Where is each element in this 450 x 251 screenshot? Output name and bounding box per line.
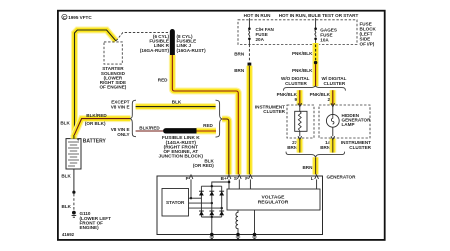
svg-text:OF I/P): OF I/P) xyxy=(360,41,375,46)
svg-text:JUNCTION BLOCK): JUNCTION BLOCK) xyxy=(159,154,204,160)
svg-text:9: 9 xyxy=(294,97,297,102)
svg-text:BRN: BRN xyxy=(302,165,313,170)
wire stator phase 3 xyxy=(189,207,222,209)
svg-text:REGULATOR: REGULATOR xyxy=(258,200,289,206)
tick label to box left xyxy=(248,18,250,20)
wire RED from link R to generator S xyxy=(172,55,238,175)
svg-text:V8 VIN E: V8 VIN E xyxy=(111,104,130,109)
svg-text:RED: RED xyxy=(203,123,213,128)
resistor (gauge) xyxy=(295,111,307,131)
svg-text:S: S xyxy=(234,176,237,181)
pin 14 arrow xyxy=(331,136,335,140)
node splice on PNK/BLK wire xyxy=(314,61,317,64)
wire battery diagonal to split brace (BLK/RED) xyxy=(74,119,130,136)
diode D3 xyxy=(219,191,224,195)
wire BLK (OR RED) to generator B+ xyxy=(222,119,229,175)
svg-text:PNK/BLK: PNK/BLK xyxy=(292,68,313,73)
pin 9 arrow xyxy=(298,103,302,107)
svg-text:P: P xyxy=(186,176,189,181)
svg-text:20A: 20A xyxy=(256,37,265,42)
wire B+ to rectifier xyxy=(212,182,229,186)
wire RED from link K to join brace xyxy=(197,128,217,135)
svg-text:CLUSTER: CLUSTER xyxy=(324,81,346,86)
svg-text:(16GA-RUST): (16GA-RUST) xyxy=(140,48,170,53)
wire dashed solenoid to fusible link R xyxy=(116,33,169,41)
node rectifier bottom junction xyxy=(211,216,213,218)
wire battery negative BLK xyxy=(73,169,75,192)
wire rectifier to case ground xyxy=(211,217,213,235)
border frame xyxy=(58,11,385,240)
svg-text:1995 VFTC: 1995 VFTC xyxy=(68,15,92,20)
svg-text:HOT IN RUN, BULB TEST OR START: HOT IN RUN, BULB TEST OR START xyxy=(279,13,359,18)
wire L internal xyxy=(316,179,318,189)
terminal F xyxy=(249,175,253,179)
svg-text:F: F xyxy=(245,176,248,181)
svg-text:PNK/BLK: PNK/BLK xyxy=(277,92,298,97)
svg-text:PNK/BLK: PNK/BLK xyxy=(310,92,331,97)
copyright mark xyxy=(62,14,93,20)
instrument cluster resistor box xyxy=(287,105,314,138)
wire into lamp xyxy=(332,107,334,115)
fuse C/H FAN 20A xyxy=(248,20,251,45)
svg-text:BLK: BLK xyxy=(61,174,71,179)
svg-text:(16GA-RUST): (16GA-RUST) xyxy=(177,48,207,53)
svg-text:C: C xyxy=(63,15,66,20)
node phase 2 junction xyxy=(211,202,213,204)
svg-text:BRN: BRN xyxy=(234,52,245,57)
label fusible link J note xyxy=(177,34,207,53)
wire BRN below resistor xyxy=(296,139,303,153)
wire stator phase 1 xyxy=(189,197,202,199)
ground regulator xyxy=(252,233,256,239)
svg-text:10A: 10A xyxy=(320,38,329,43)
diode D1 xyxy=(199,191,204,195)
svg-text:BLK/RED: BLK/RED xyxy=(86,113,107,118)
wire PNK/BLK to cluster resistor xyxy=(296,90,303,105)
label G110 note xyxy=(80,211,112,230)
ground G110 xyxy=(72,211,77,217)
wire into resistor xyxy=(299,107,301,112)
label FUSIBLE LINK K note xyxy=(159,135,204,159)
stator box xyxy=(162,189,189,217)
svg-text:RED: RED xyxy=(158,78,168,83)
wire BRN to generator F xyxy=(246,66,253,175)
diode D2 xyxy=(209,191,214,195)
svg-text:BLK: BLK xyxy=(60,121,70,126)
node P phase junction xyxy=(190,197,192,199)
instrument cluster lamp box xyxy=(319,105,370,138)
diode D5 xyxy=(209,211,214,215)
label FUSE BLOCK note xyxy=(360,21,377,46)
wire out of lamp xyxy=(332,127,334,136)
svg-text:B+: B+ xyxy=(221,176,227,181)
wire BRN to generator L xyxy=(312,157,319,174)
svg-text:BLK/RED: BLK/RED xyxy=(139,125,160,130)
wire regulator to case ground xyxy=(254,210,256,235)
wire BRN dashed below C/H FAN fuse xyxy=(248,45,250,63)
terminal S xyxy=(237,175,241,179)
wire stator phase 2 xyxy=(189,202,212,204)
svg-text:LAMP: LAMP xyxy=(342,122,355,127)
node B+ junction xyxy=(228,181,231,184)
ground rectifier xyxy=(210,233,214,239)
node battery junction xyxy=(72,134,75,137)
svg-text:STATOR: STATOR xyxy=(166,200,185,205)
label STARTER SOLENOID note xyxy=(99,66,126,89)
diode D6 xyxy=(219,211,224,215)
svg-text:HOT IN RUN: HOT IN RUN xyxy=(244,13,271,18)
svg-text:41692: 41692 xyxy=(62,232,75,237)
svg-text:VOLTAGE: VOLTAGE xyxy=(262,195,286,201)
pin 2 arrow xyxy=(331,103,335,107)
fusible link R xyxy=(170,32,175,56)
svg-text:GENERATOR: GENERATOR xyxy=(327,175,357,180)
hidden generator lamp xyxy=(326,114,339,127)
brace join BRN wires xyxy=(286,152,345,158)
svg-text:BRN: BRN xyxy=(287,145,298,150)
wire battery positive stub xyxy=(70,135,77,139)
brace join right xyxy=(216,100,223,137)
svg-text:BLK: BLK xyxy=(62,204,72,209)
wire top branch BLK (except V8 VIN E) xyxy=(136,103,216,110)
svg-text:L: L xyxy=(311,176,314,181)
svg-text:(OR BLK): (OR BLK) xyxy=(85,121,106,126)
svg-text:ENGINE): ENGINE) xyxy=(80,225,100,230)
wire out of resistor xyxy=(299,131,301,136)
svg-text:CLUSTER: CLUSTER xyxy=(349,145,371,150)
wire PNK/BLK below GAGES fuse xyxy=(312,43,319,86)
wire PNK/BLK to cluster lamp xyxy=(329,90,336,105)
label fusible link R note xyxy=(140,34,170,53)
svg-text:BATTERY: BATTERY xyxy=(83,139,107,145)
battery xyxy=(66,139,81,169)
terminal B+ xyxy=(227,175,231,179)
svg-text:BRN: BRN xyxy=(320,145,331,150)
wire battery to top-left corner run (BLK) xyxy=(75,30,116,136)
brace split to clusters xyxy=(284,86,346,91)
diode rectifier bridge rails xyxy=(201,186,221,217)
tick label to box right xyxy=(315,18,317,20)
label HIDDEN GENERATOR LAMP xyxy=(342,113,372,127)
svg-text:PNK/BLK: PNK/BLK xyxy=(292,51,313,56)
node splice on BRN wire xyxy=(248,63,252,66)
node rectifier top junction xyxy=(211,185,213,187)
label GAGES FUSE 10A xyxy=(320,28,337,43)
terminal L xyxy=(315,175,319,179)
fuse GAGES 10A xyxy=(314,20,317,45)
ground field coil xyxy=(236,233,240,239)
voltage regulator box xyxy=(227,189,320,210)
field coil xyxy=(236,210,238,235)
diode D4 xyxy=(199,211,204,215)
wire bottom branch BLK/RED to fusible link K xyxy=(136,130,165,132)
svg-text:CLUSTER: CLUSTER xyxy=(285,81,307,86)
label C/H FAN FUSE 20A xyxy=(256,27,275,42)
svg-text:2: 2 xyxy=(327,97,330,102)
pin 27 arrow xyxy=(298,136,302,140)
terminal P xyxy=(189,175,193,179)
wire dashed to ground G110 xyxy=(73,194,75,211)
fusible link K xyxy=(166,128,196,133)
starter solenoid box xyxy=(104,42,122,64)
brace split left xyxy=(130,100,136,137)
wire F internal xyxy=(249,179,251,189)
svg-text:CLUSTER: CLUSTER xyxy=(263,109,285,114)
svg-text:ONLY: ONLY xyxy=(117,132,129,137)
wire B+ internal xyxy=(228,179,230,189)
node phase 3 junction xyxy=(221,207,223,209)
svg-text:BLK: BLK xyxy=(172,99,182,104)
generator box xyxy=(157,176,323,235)
svg-text:+: + xyxy=(77,139,80,144)
svg-text:OF ENGINE): OF ENGINE) xyxy=(99,85,126,90)
svg-text:BRN: BRN xyxy=(234,68,245,73)
node battery negative junction xyxy=(72,191,75,194)
wire S internal xyxy=(238,179,240,189)
svg-text:(OR RED): (OR RED) xyxy=(193,163,214,168)
wire BRN below lamp xyxy=(329,139,336,153)
fuse block box xyxy=(238,20,357,45)
wire P to stator phase xyxy=(190,179,192,198)
